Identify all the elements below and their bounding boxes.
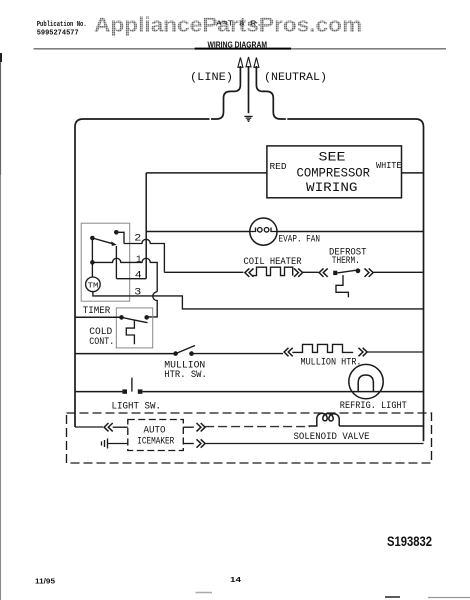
mullion switch right dot [189,351,194,356]
refrig light filament [358,375,373,392]
header rule [34,48,447,50]
svg-text:SOLENOID VALVE: SOLENOID VALVE [294,432,370,443]
svg-text:WHITE: WHITE [376,161,402,171]
svg-text:MULLION HTR.: MULLION HTR. [301,358,362,369]
power cord prong arrow (line) [238,57,259,67]
evap fan motor windings [250,228,277,233]
wire top edge right + right edge [287,119,423,441]
wire light row left [75,391,122,393]
mullion heater chevrons right [359,348,368,357]
svg-text:A=T a R.: A=T a R. [216,21,262,29]
svg-text:11/95: 11/95 [35,578,55,585]
refrig light bulb circle [349,364,383,398]
svg-text:SEE: SEE [319,151,346,165]
wire solenoid coil to right edge [339,425,423,427]
svg-text:14: 14 [230,577,241,584]
timer contact dot B [114,230,119,235]
cold control left dot [119,315,124,320]
svg-text:(NEUTRAL): (NEUTRAL) [264,72,327,84]
wire evap fan row [146,231,423,233]
svg-text:S193832: S193832 [387,534,432,549]
svg-text:LIGHT SW.: LIGHT SW. [112,401,162,412]
icemaker plug symbol row2 [102,439,128,449]
svg-text:THERM.: THERM. [332,256,360,267]
defrost therm sensing element zigzag [336,275,348,297]
mullion heater element (square wave) [292,344,353,352]
defrost therm left contact (square) [333,271,337,275]
wire icemaker box row2 right [183,443,194,445]
wire bus to compressor (red) [146,172,267,174]
timer box [81,223,130,301]
cold control right dot [144,315,149,320]
mullion switch arm [176,346,195,354]
cold control box [116,308,152,348]
wire A to D [91,238,93,262]
svg-text:HTR. SW.: HTR. SW. [164,370,207,381]
svg-text:AUTO: AUTO [144,425,166,436]
timer contact dot D [90,260,95,265]
wire coil heater feed [164,271,243,274]
icemaker enclosure dashed box [67,413,432,463]
icemaker row1 chevrons left (pointing left) [104,423,113,431]
wire row1 dashed continuation to solenoid coil [205,426,310,428]
svg-text:(LINE): (LINE) [190,72,233,84]
title underline [195,48,291,50]
wire C down from switch arm [115,246,117,279]
svg-text:TIMER: TIMER [83,306,111,317]
icemaker row1 chevrons right [197,423,206,431]
wire mullion row left [75,353,176,355]
svg-text:1: 1 [136,254,142,266]
wire row1 vertical hop over row3 then down to cold control [148,292,158,317]
timer motor TM circle [86,277,101,292]
wire left edge to icemaker row1 [75,426,103,428]
wire row2 to right edge [205,443,423,445]
svg-text:WIRING: WIRING [306,181,358,195]
svg-text:2: 2 [134,233,141,245]
svg-text:ICEMAKER: ICEMAKER [137,436,174,447]
coil heater disconnect chevrons left [245,268,254,277]
wire compressor to right edge (white) [402,172,424,174]
timer switch arm A-C with arrowhead [92,238,113,244]
wire mullion heater to right edge [367,351,423,353]
compressor box [267,146,402,198]
cold control bellows zigzag [126,320,134,344]
svg-text:RED: RED [270,162,287,172]
timer contact dot A [90,236,95,241]
svg-text:3: 3 [134,286,141,298]
cold control arm [122,317,148,322]
wire terminal4 bottom link [116,278,146,280]
svg-text:EVAP. FAN: EVAP. FAN [279,235,321,246]
solenoid valve coil [309,413,340,426]
svg-text:Publication No.: Publication No. [37,21,87,29]
svg-text:COMPRESSOR: COMPRESSOR [297,166,371,180]
auto icemaker dashed box [128,420,184,451]
evap fan motor circle [250,218,277,245]
svg-text:REFRIG. LIGHT: REFRIG. LIGHT [340,401,407,412]
light switch left terminal [122,389,127,393]
page left edge scan line [0,53,2,62]
coil heater disconnect chevrons right [294,268,303,277]
light switch right terminal [138,389,143,393]
svg-text:TM: TM [88,282,100,290]
wire coil heater to defrost therm [303,271,319,273]
coil heater element (square wave) [253,267,293,275]
mullion switch left dot [173,351,178,356]
mullion heater chevrons left [284,348,293,357]
main vertical bus x=146 [145,173,147,279]
wire line-side cord [211,66,240,119]
ground symbol [244,116,252,121]
outer cabinet loop (top edge with cord gap, sides) [75,119,424,441]
svg-text:COIL HEATER: COIL HEATER [244,257,302,268]
wire D to TM [91,262,93,277]
defrost therm chevrons right [365,268,374,277]
defrost therm right contact dot [356,268,361,273]
wire neutral-side cord [256,66,285,119]
wire icemaker box row1 right [183,426,194,428]
svg-text:CONT.: CONT. [89,337,114,348]
wire left edge to cold control [75,316,122,318]
wire ground lead [248,66,250,113]
defrost therm chevrons left [319,268,328,277]
defrost therm arm [337,270,355,273]
power cord prong arrow (neutral) [254,58,259,68]
wire row1 from D: hops over C-wire and bus, corner down [92,258,157,292]
wire top edge left + left edge [75,119,210,427]
svg-text:5995274577: 5995274577 [37,29,79,37]
wire defrost therm to right edge [373,271,423,273]
wire terminal 2: B right, down, to row2 [116,232,124,243]
icemaker row2 chevrons right [197,439,206,447]
wire row3 from TM bottom [93,292,424,309]
publication number block [37,21,87,37]
wire light row to right edge [142,391,423,393]
power cord prong arrow (ground) [246,57,251,67]
wire mullion switch to heater [192,353,284,355]
wire chevrons to icemaker box [113,426,128,428]
wire row2 with hop over bus, to coil heater feed [124,239,164,272]
svg-text:4: 4 [135,269,142,281]
light switch plunger [131,378,133,392]
footer scan marks [196,592,213,594]
